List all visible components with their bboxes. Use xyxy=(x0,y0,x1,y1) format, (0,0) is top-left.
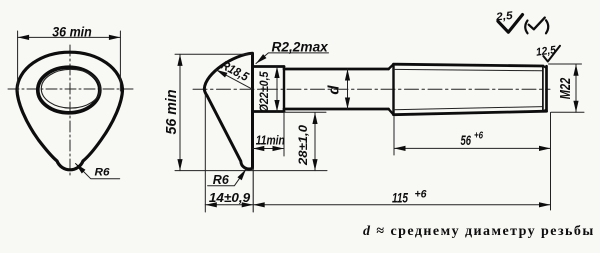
dimension 11 min xyxy=(253,148,285,150)
dimension M22 xyxy=(575,64,577,112)
head dome ring outer ellipse xyxy=(38,67,100,113)
leader R2,2max xyxy=(256,53,329,64)
svg-text:14±0,9: 14±0,9 xyxy=(209,190,251,205)
head side outline xyxy=(204,53,252,169)
svg-text:115: 115 xyxy=(392,190,408,206)
vertical centerline of head front view xyxy=(69,45,71,176)
svg-text:56 min: 56 min xyxy=(164,89,180,134)
dimension d xyxy=(347,69,349,109)
thread start line xyxy=(392,64,394,114)
extension line at neck step (11 min) xyxy=(283,113,285,157)
svg-text:R6: R6 xyxy=(213,173,230,187)
dimension 36 min line xyxy=(18,36,121,38)
svg-text:Ø22±0,5: Ø22±0,5 xyxy=(257,71,271,112)
extension line below head face xyxy=(252,168,254,212)
M22 bottom extension xyxy=(551,111,584,113)
dimension 36 min extension lines xyxy=(18,31,121,91)
dimension 56 +6 xyxy=(394,147,551,149)
extension line at head back (14 dim) xyxy=(204,95,206,212)
svg-text:28±1,0: 28±1,0 xyxy=(296,125,310,166)
dimension 28+-1,0 xyxy=(314,113,316,171)
dimension O22+-0,5 xyxy=(276,67,278,112)
svg-text:56: 56 xyxy=(461,132,472,148)
extension line head top (56 min) xyxy=(175,53,252,55)
bolt axis centerline xyxy=(193,88,550,90)
thread major diameter edges xyxy=(394,64,547,115)
roughness (check) in parentheses xyxy=(525,21,527,34)
extension line head tip bottom (56 min / 28) xyxy=(175,170,327,172)
thread minor diameter thin lines xyxy=(394,69,543,109)
bolt end face xyxy=(545,66,548,111)
dimension 115 +6 xyxy=(253,204,550,206)
neck section (cylindrical, O22) xyxy=(253,67,285,112)
shank d section edges xyxy=(284,69,389,109)
leader R6 on front view xyxy=(76,164,120,179)
svg-text:d ≈ среднему диаметру резьбы: d ≈ среднему диаметру резьбы xyxy=(363,224,595,239)
dimension 14+-0,9 xyxy=(205,204,253,206)
extension line bolt end (56/115 dims) xyxy=(550,113,552,211)
leader R6 side view xyxy=(208,169,246,186)
svg-text:d: d xyxy=(326,85,343,95)
extension line neck bottom for 28 dim xyxy=(284,111,326,113)
neck step xyxy=(283,67,285,112)
head outer contour (pear shape) xyxy=(17,52,123,170)
svg-text:R6: R6 xyxy=(95,167,111,179)
svg-text:R2,2max: R2,2max xyxy=(272,39,329,54)
M22 top extension xyxy=(549,63,582,65)
svg-text:+6: +6 xyxy=(415,189,428,201)
thread run-up chamfer xyxy=(389,64,394,114)
dimension 56 min xyxy=(179,54,181,170)
svg-text:36 min: 36 min xyxy=(52,24,92,39)
svg-text:+6: +6 xyxy=(474,131,483,142)
leader R18,5 xyxy=(216,70,252,89)
head dome ring inner ellipse (thin) xyxy=(41,69,100,108)
svg-text:M22: M22 xyxy=(557,77,574,99)
end chamfer line xyxy=(542,67,544,111)
svg-text:12,5: 12,5 xyxy=(535,44,557,59)
extension line thread start (56 dim) xyxy=(393,117,395,156)
svg-text:11min: 11min xyxy=(256,134,285,148)
horizontal centerline of head front view xyxy=(8,88,133,90)
